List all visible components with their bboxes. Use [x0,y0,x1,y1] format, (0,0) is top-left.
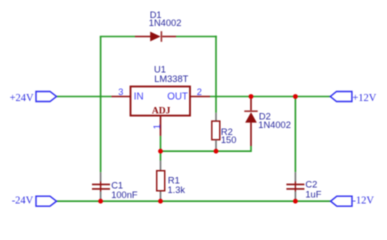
U1 reference label [154,65,166,75]
wire: D1 top right segment [176,36,217,38]
wire: +24V rail to IN pin [57,96,112,98]
resistor R1 bottom gray lead [160,192,162,202]
wire: left vertical (D1 anode loop down to C1) [100,37,102,173]
svg-text:150: 150 [221,135,237,145]
pin name ADJ [152,107,171,117]
junction at D2 anode / OUT rail [249,94,254,99]
D1 value label [149,18,182,28]
pin ADJ lead (pin 1) [160,116,162,136]
resistor R2 top gray lead [215,113,217,121]
wire: OUT rail to +12V port [210,96,330,98]
R1 reference label [168,175,180,185]
svg-text:1uF: 1uF [305,190,321,200]
C1 value label [111,190,138,200]
R1 value label [168,185,186,195]
pin number 3 [118,87,123,97]
resistor R2 bottom gray lead [215,140,217,151]
svg-text:LM338T: LM338T [154,74,188,84]
capacitor C2 plates [286,182,304,192]
svg-text:1.3k: 1.3k [168,185,186,195]
R2 value label [221,135,237,145]
node +24V label [10,93,34,104]
svg-text:ADJ: ADJ [152,107,171,117]
junction at R1 / bottom rail [158,199,163,204]
wire: ADJ horizontal line R1/R2/D2 [161,150,252,152]
C2 value label [305,190,321,200]
resistor R1 top gray lead [160,161,162,171]
port tag -24V [36,196,57,206]
capacitor C1 plates [92,182,110,192]
op-amp U1 LM338T regulator box [131,87,191,116]
svg-text:-12V: -12V [352,196,374,207]
resistor R1 body [157,171,165,191]
R2 reference label [221,127,233,137]
C1 reference label [111,181,123,191]
port tag -12V [331,196,352,206]
junction at C2 / OUT rail [293,94,298,99]
diode D2 bottom lead [250,123,252,146]
pin number 1 (rotated) [152,124,162,129]
wire: right vertical from D1 cathode down to R2 [215,36,217,113]
pin name OUT [167,91,188,102]
svg-text:U1: U1 [154,65,166,75]
junction at C2 / bottom rail [293,199,298,204]
wire: R1 top green segment [160,151,162,160]
C2 reference label [305,180,317,190]
U1 value label [154,74,188,84]
junction at C1 / bottom rail [98,199,103,204]
svg-text:IN: IN [134,91,144,102]
pin IN lead (pin 3) [111,96,130,98]
wire: D2 bottom green segment [250,146,252,152]
svg-text:+12V: +12V [352,93,376,104]
node -24V label [12,196,34,207]
capacitor C1 top gray lead [100,172,102,181]
wire: ADJ pin lower green segment [160,136,162,151]
diode D2 triangle [245,112,257,122]
svg-text:C2: C2 [305,180,317,190]
wire: C2 top vertical [294,97,296,173]
svg-text:2: 2 [197,87,202,97]
port tag +12V [330,92,352,102]
diode D1 cathode bar [160,31,162,42]
pin OUT lead (pin 2) [190,96,210,98]
capacitor C2 top gray lead [294,172,296,181]
svg-text:OUT: OUT [167,91,188,102]
svg-text:1: 1 [152,124,162,129]
junction at R2 bottom [214,149,219,154]
wire: D1 top left segment [100,36,135,38]
capacitor C1 bottom gray lead [100,192,102,202]
svg-text:100nF: 100nF [111,190,138,200]
svg-text:+24V: +24V [10,93,34,104]
svg-text:3: 3 [118,87,123,97]
pin number 2 [197,87,202,97]
junction at ADJ / R1 [158,149,163,154]
diode D2 cathode bar [244,110,257,112]
node +12V label [352,93,376,104]
node -12V label [352,196,374,207]
D1 reference label [150,10,162,20]
svg-text:1N4002: 1N4002 [149,18,182,28]
svg-text:R1: R1 [168,175,180,185]
diode D2 top lead [250,97,252,111]
diode D1 triangle [150,32,160,42]
capacitor C2 bottom gray lead [294,192,296,202]
pin name IN [134,91,144,102]
diode D1 leads [135,36,176,38]
resistor R2 body [212,121,220,140]
port tag +24V [36,92,57,102]
svg-text:1N4002: 1N4002 [258,120,291,130]
svg-text:-24V: -24V [12,196,34,207]
D2 value label [258,120,291,130]
D2 reference label [259,112,271,122]
wire: bottom rail -24V to -12V [57,200,331,202]
